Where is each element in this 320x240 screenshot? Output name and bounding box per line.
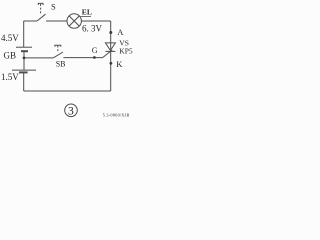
svg-text:4.5V: 4.5V — [1, 33, 19, 43]
svg-text:KP5: KP5 — [119, 47, 133, 56]
svg-text:5.3-0860/XJB: 5.3-0860/XJB — [103, 113, 130, 118]
svg-text:SB: SB — [56, 60, 66, 69]
svg-text:K: K — [116, 59, 123, 69]
svg-text:A: A — [117, 27, 124, 37]
svg-text:3: 3 — [68, 106, 74, 118]
svg-text:G: G — [92, 46, 98, 55]
svg-text:EL: EL — [82, 7, 92, 16]
svg-text:GB: GB — [4, 50, 17, 60]
svg-text:S: S — [51, 2, 56, 12]
svg-text:6. 3V: 6. 3V — [82, 23, 103, 33]
svg-text:1.5V: 1.5V — [1, 72, 19, 82]
